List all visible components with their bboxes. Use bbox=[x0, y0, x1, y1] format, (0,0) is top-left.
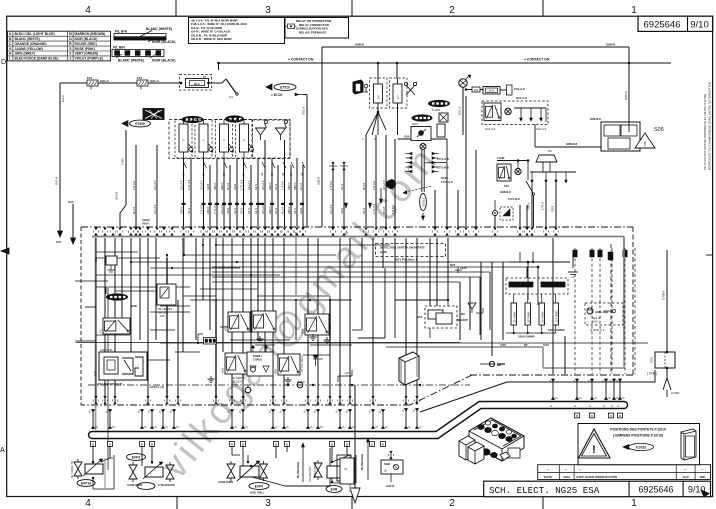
svg-text:CHAUD: CHAUD bbox=[253, 359, 262, 362]
grey unit outline right bbox=[623, 237, 625, 346]
solenoid Y2 bbox=[276, 128, 286, 135]
svg-text:D: D bbox=[1, 59, 6, 66]
wire column x=546 bbox=[545, 183, 547, 227]
svg-text:1771-A-8: 1771-A-8 bbox=[437, 157, 449, 161]
lamp H4 bbox=[515, 168, 521, 174]
svg-text:1000 OHMS: 1000 OHMS bbox=[518, 335, 535, 339]
stub x=142 bbox=[141, 409, 143, 429]
stub x=373 bbox=[372, 409, 374, 429]
wire column low x=216 bbox=[215, 238, 217, 403]
wire column low x=203 bbox=[202, 238, 204, 300]
svg-text:B06: B06 bbox=[56, 240, 62, 244]
switch blade S3 bbox=[526, 181, 533, 193]
manifold bottom cylinders bbox=[482, 448, 491, 455]
svg-text:2: 2 bbox=[449, 5, 455, 16]
wire h y=307 bbox=[85, 306, 96, 308]
arrow to P.10/10 bbox=[623, 445, 629, 450]
revision table bbox=[538, 465, 711, 480]
wire h y=281 bbox=[75, 280, 108, 282]
svg-text:G01-A-8: G01-A-8 bbox=[221, 204, 224, 214]
connector arrow bottom x60 bbox=[58, 231, 63, 237]
wire column low x=373 bbox=[372, 238, 374, 403]
svg-text:Q1: Q1 bbox=[229, 95, 233, 99]
wire column x=136 bbox=[135, 145, 137, 227]
svg-text:G88-N: G88-N bbox=[221, 182, 224, 190]
svg-text:G4-N: G4-N bbox=[341, 184, 344, 190]
svg-text:EVP4: EVP4 bbox=[255, 484, 264, 488]
K32 telescope unit bbox=[99, 352, 147, 380]
svg-text:EVP3: EVP3 bbox=[132, 455, 141, 459]
svg-text:G4-N: G4-N bbox=[363, 208, 366, 214]
svg-text:4: 4 bbox=[85, 5, 91, 16]
connector block small bbox=[204, 338, 217, 345]
motor M1 bbox=[459, 79, 467, 87]
manifold cube B bbox=[468, 442, 484, 464]
svg-text:1: 1 bbox=[631, 498, 637, 509]
svg-text:11AM: 11AM bbox=[497, 156, 505, 160]
svg-text:K28: K28 bbox=[160, 315, 165, 318]
terminal minus 2 bbox=[251, 367, 256, 372]
EVP4 cluster bbox=[249, 483, 269, 490]
svg-text:SCH. ELECT. NG25 ESA: SCH. ELECT. NG25 ESA bbox=[489, 485, 600, 496]
svg-text:380 OHMS: 380 OHMS bbox=[543, 311, 545, 323]
horn box S2 bbox=[411, 127, 431, 141]
svg-text:48,1-B: 48,1-B bbox=[383, 206, 386, 214]
svg-text:BLINDAGE: BLINDAGE bbox=[296, 462, 300, 478]
svg-text:+ CONTACT ON: + CONTACT ON bbox=[288, 58, 314, 62]
ground K21 bbox=[210, 376, 212, 379]
narrow box right of horn bbox=[437, 124, 445, 137]
wire column low x=223 bbox=[222, 238, 224, 352]
wire column x=386 bbox=[385, 135, 387, 227]
svg-text:3: 3 bbox=[265, 5, 271, 16]
wire column x=291 bbox=[290, 165, 292, 227]
zone tick top 2/1 bbox=[542, 0, 544, 16]
stub x=308 bbox=[307, 409, 309, 429]
stub x=243 bbox=[242, 409, 244, 429]
svg-text:G009: G009 bbox=[552, 205, 555, 212]
manifold solenoid coils bbox=[478, 425, 484, 430]
nested bus y=282 bbox=[212, 281, 460, 283]
svg-text:G009: G009 bbox=[207, 183, 210, 190]
svg-text:F7: F7 bbox=[396, 95, 400, 99]
svg-text:B: B bbox=[331, 442, 333, 446]
E10 wires bbox=[395, 299, 448, 301]
svg-text:!: ! bbox=[592, 444, 596, 456]
svg-text:CH5: CH5 bbox=[650, 357, 654, 363]
lamp H3 bbox=[420, 144, 426, 150]
svg-text:1771-B-8: 1771-B-8 bbox=[373, 203, 376, 214]
svg-text:P.10/10: P.10/10 bbox=[636, 445, 647, 449]
svg-text:G01-A-8: G01-A-8 bbox=[181, 180, 184, 190]
svg-text:175-B-8: 175-B-8 bbox=[330, 180, 333, 190]
dashed column x=600 bbox=[599, 248, 601, 374]
wire h y=262 bbox=[130, 261, 220, 263]
junction dots mesh bbox=[130, 261, 132, 263]
ESA boundary left bbox=[80, 227, 82, 405]
svg-text:0,5V: 0,5V bbox=[543, 343, 549, 347]
svg-text:G7084: G7084 bbox=[662, 291, 666, 300]
svg-text:1771-B-8: 1771-B-8 bbox=[437, 166, 449, 170]
svg-text:K11: K11 bbox=[301, 329, 305, 334]
svg-text:POSITIONS DES PONTETS P.10/10: POSITIONS DES PONTETS P.10/10 bbox=[610, 428, 666, 432]
svg-text:EVR: EVR bbox=[331, 487, 338, 491]
wire column x=466 bbox=[465, 96, 467, 227]
svg-text:G4-N: G4-N bbox=[275, 208, 278, 214]
svg-text:E10: E10 bbox=[417, 315, 423, 319]
extra mesh horizontals bbox=[96, 257, 160, 259]
diode box D4 bbox=[439, 113, 448, 122]
wire column low x=265 bbox=[264, 238, 266, 352]
svg-text:4A3: 4A3 bbox=[474, 89, 479, 92]
wire column x=395 bbox=[394, 139, 396, 227]
relay K6 trapezoid bbox=[536, 155, 557, 162]
arrow + label E7510 bbox=[266, 84, 272, 90]
wire column x=476 bbox=[475, 150, 477, 227]
svg-text:(LMI): (LMI) bbox=[380, 250, 387, 254]
svg-text:SDB: SDB bbox=[384, 462, 390, 466]
wire column low x=430 bbox=[429, 238, 431, 306]
wire column low x=383 bbox=[382, 238, 384, 268]
svg-text:G: G bbox=[617, 405, 619, 408]
svg-text:G4-N: G4-N bbox=[255, 208, 258, 214]
arrow + label E7509 bbox=[122, 121, 128, 127]
svg-text:NOIR (BLACK): NOIR (BLACK) bbox=[75, 37, 98, 41]
wire column x=333 bbox=[332, 162, 334, 227]
resistor bank dashed bbox=[506, 278, 568, 294]
svg-text:BE CRAWL BD: BE CRAWL BD bbox=[71, 461, 74, 478]
svg-text:B2B: B2B bbox=[131, 304, 137, 308]
svg-text:E7512: E7512 bbox=[422, 197, 426, 206]
wire column x=183.5 bbox=[183, 158, 185, 227]
stub x=417 bbox=[416, 408, 418, 429]
svg-text:G88-N: G88-N bbox=[606, 43, 615, 47]
svg-text:AUXILIAIRE: AUXILIAIRE bbox=[127, 483, 142, 487]
key switch bbox=[218, 63, 220, 70]
svg-text:380 OHMS: 380 OHMS bbox=[529, 311, 531, 323]
wire column x=258 bbox=[257, 158, 259, 227]
svg-text:G4-N: G4-N bbox=[275, 184, 278, 190]
svg-text:1000 OHMS: 1000 OHMS bbox=[548, 328, 565, 332]
svg-text:D8: D8 bbox=[319, 357, 323, 361]
wire column x=556 bbox=[555, 183, 557, 227]
svg-text:B: B bbox=[346, 442, 348, 446]
travel dashed arrow bbox=[405, 186, 432, 192]
wire column low x=448 bbox=[447, 238, 449, 300]
grey unit outline top bbox=[92, 236, 624, 238]
svg-text:G88-N: G88-N bbox=[288, 206, 291, 214]
pin bars on wires bbox=[182, 203, 186, 205]
wire column low x=553 bbox=[552, 238, 554, 374]
bus pin crossings left bbox=[95, 228, 98, 230]
key position text bbox=[376, 244, 446, 257]
svg-text:6925646: 6925646 bbox=[638, 484, 673, 494]
svg-text:G88-N: G88-N bbox=[317, 177, 321, 185]
svg-text:D2: D2 bbox=[461, 312, 465, 316]
wire column x=251 bbox=[250, 165, 252, 227]
relay K21 bbox=[225, 353, 247, 374]
wire h y=275 bbox=[96, 274, 280, 276]
wire column low x=232 bbox=[231, 238, 233, 403]
connector pictogram bbox=[288, 24, 295, 29]
svg-text:EVP14: EVP14 bbox=[81, 481, 91, 485]
wire column low x=460 bbox=[459, 282, 461, 340]
svg-text:ETAT AVANT MODIFICATION: ETAT AVANT MODIFICATION bbox=[577, 475, 618, 479]
stub right x=620 bbox=[619, 379, 621, 401]
svg-text:B: B bbox=[151, 442, 153, 446]
title block bbox=[484, 481, 711, 497]
wires from fan right bbox=[439, 162, 448, 164]
svg-text:G88-N: G88-N bbox=[624, 91, 628, 100]
svg-text:5-4382: 5-4382 bbox=[432, 108, 441, 112]
stub right x=592 bbox=[591, 379, 593, 401]
svg-text:G: G bbox=[9, 47, 12, 51]
+15 hook bbox=[337, 376, 339, 382]
down arrow x370 bbox=[369, 203, 372, 208]
svg-text:B: B bbox=[619, 414, 621, 418]
wire bus to fuses F6 F7 bbox=[377, 63, 379, 78]
svg-text:NOIR (BLACK): NOIR (BLACK) bbox=[152, 40, 176, 44]
svg-text:D27: D27 bbox=[450, 263, 456, 267]
svg-text:K32: K32 bbox=[93, 370, 97, 376]
relay K12 bbox=[228, 312, 250, 332]
svg-text:C1: C1 bbox=[99, 329, 103, 333]
svg-text:BLANC (WHITE): BLANC (WHITE) bbox=[118, 59, 144, 63]
wire column x=366 bbox=[365, 135, 367, 227]
svg-text:AVVA: AVVA bbox=[142, 222, 149, 226]
zone tick top 4/3 bbox=[175, 0, 177, 16]
svg-text:2: 2 bbox=[449, 498, 455, 509]
fuse F2 inline bbox=[137, 80, 148, 86]
svg-text:175-B-8: 175-B-8 bbox=[392, 204, 395, 214]
jumper hook bbox=[197, 334, 199, 343]
wire column low x=481 bbox=[480, 262, 482, 340]
svg-text:F: F bbox=[222, 139, 226, 141]
wire column x=284.5 bbox=[284, 140, 286, 227]
wire h y=320 bbox=[240, 319, 260, 321]
wire column low x=122 bbox=[121, 238, 123, 330]
wire column x=272 bbox=[271, 158, 273, 227]
label bbox=[137, 483, 155, 490]
stub right x=606 bbox=[605, 379, 607, 401]
svg-text:G88-N: G88-N bbox=[528, 202, 531, 210]
svg-text:12V: 12V bbox=[504, 184, 509, 188]
svg-text:175-B-8: 175-B-8 bbox=[282, 180, 285, 190]
svg-text:G009: G009 bbox=[300, 207, 303, 214]
fuse bank dashed box bbox=[169, 120, 290, 159]
svg-text:G4-N: G4-N bbox=[255, 184, 258, 190]
multi switch fan bbox=[421, 150, 423, 192]
stub right x=553 bbox=[552, 379, 554, 401]
svg-text:BLINDAGE: BLINDAGE bbox=[360, 454, 364, 470]
wire column low x=178 bbox=[177, 300, 179, 403]
svg-text:G88-N: G88-N bbox=[181, 206, 184, 214]
svg-text:K20: K20 bbox=[274, 368, 278, 374]
stub right x=614 bbox=[613, 379, 615, 401]
svg-text:(BL LEVT): (BL LEVT) bbox=[232, 381, 243, 384]
svg-text:3-TELESCOP: 3-TELESCOP bbox=[158, 483, 175, 487]
relay block S3 bbox=[497, 160, 528, 162]
coil component top-left interior bbox=[106, 256, 117, 265]
svg-text:W.A: W.A bbox=[489, 89, 494, 93]
svg-text:AUXILIAIRE: AUXILIAIRE bbox=[218, 480, 233, 484]
svg-text:B: B bbox=[382, 442, 384, 446]
border letter B arrow left bbox=[1, 248, 9, 254]
wire h y=300 bbox=[212, 299, 218, 301]
manifold cube A bbox=[459, 436, 475, 460]
svg-text:F: F bbox=[202, 139, 206, 141]
wire h y=300 bbox=[190, 299, 350, 301]
wire column x=447 bbox=[446, 185, 448, 227]
svg-text:+15: +15 bbox=[344, 371, 349, 375]
oval connector B2B bbox=[107, 294, 128, 300]
relay RM LEVI K28 bbox=[157, 284, 176, 305]
svg-text:G01-A: G01-A bbox=[100, 79, 110, 83]
svg-text:G: G bbox=[574, 405, 576, 408]
svg-text:B: B bbox=[610, 414, 612, 418]
svg-text:G01-A-8: G01-A-8 bbox=[262, 204, 265, 214]
svg-text:G4-N: G4-N bbox=[234, 208, 237, 214]
svg-text:48,1-B: 48,1-B bbox=[282, 206, 285, 214]
svg-text:B: B bbox=[591, 414, 593, 418]
wire column x=278 bbox=[277, 165, 279, 227]
svg-text:E7509: E7509 bbox=[135, 122, 145, 126]
svg-text:F7: F7 bbox=[203, 75, 207, 79]
wire column low x=210 bbox=[209, 238, 211, 330]
svg-text:1771-B-8: 1771-B-8 bbox=[188, 179, 191, 190]
ground K13 bbox=[312, 334, 314, 337]
warning triangle bbox=[579, 429, 611, 458]
svg-text:RELAIS FREINAGE: RELAIS FREINAGE bbox=[299, 30, 326, 34]
stub x=110 bbox=[109, 409, 111, 429]
wire column low x=340 bbox=[339, 238, 341, 403]
svg-text:G02-N: G02-N bbox=[386, 484, 394, 488]
dashed box D7 bbox=[500, 207, 513, 220]
svg-text:BLEU FONCE (DARK BLUE): BLEU FONCE (DARK BLUE) bbox=[15, 57, 59, 61]
svg-text:G88-N: G88-N bbox=[269, 182, 272, 190]
notes box relay connector bbox=[285, 18, 349, 39]
terminal minus bbox=[297, 382, 303, 388]
svg-text:G88-N-8: G88-N-8 bbox=[566, 142, 577, 146]
EVR cluster bbox=[326, 486, 342, 493]
svg-text:F15: F15 bbox=[137, 76, 143, 80]
jumper relay 3d icon bbox=[681, 429, 696, 460]
wire column x=237 bbox=[236, 158, 238, 227]
warning box jumpers bbox=[578, 424, 700, 465]
wire column x=157 bbox=[156, 145, 158, 227]
svg-text:VITES GRAND: VITES GRAND bbox=[314, 462, 317, 478]
svg-text:6V: 6V bbox=[524, 343, 528, 347]
wire column x=243.5 bbox=[243, 158, 245, 227]
CH6 wire down bbox=[666, 250, 668, 352]
svg-text:JAUNE (YELLOW): JAUNE (YELLOW) bbox=[15, 47, 43, 51]
svg-text:G88-N: G88-N bbox=[207, 206, 210, 214]
svg-text:K21: K21 bbox=[221, 367, 225, 373]
svg-text:G4-N: G4-N bbox=[188, 208, 191, 214]
svg-text:(JUMPERS POSITIONS P.10/10): (JUMPERS POSITIONS P.10/10) bbox=[613, 434, 663, 438]
fuse F5 bbox=[236, 120, 253, 159]
wire column x=203.5 bbox=[203, 158, 205, 227]
antenna G7084 bbox=[663, 378, 667, 390]
oval connector J3 bbox=[226, 116, 244, 122]
stub x=406 bbox=[405, 408, 407, 429]
svg-text:SURT./TEL.: SURT./TEL. bbox=[100, 348, 114, 352]
ground K20 bbox=[287, 377, 289, 380]
wire column x=527 bbox=[526, 205, 528, 227]
svg-text:G01-A-8: G01-A-8 bbox=[514, 87, 525, 91]
hydraulic manifold 3d bbox=[469, 418, 524, 461]
svg-text:REPRODUIT OU COMMUNIQUE SANS N: REPRODUIT OU COMMUNIQUE SANS NOTRE AUTOR… bbox=[708, 82, 712, 170]
svg-text:ROUGE (RED): ROUGE (RED) bbox=[75, 42, 97, 46]
svg-text:= W-CU: = W-CU bbox=[271, 93, 283, 97]
svg-text:4: 4 bbox=[85, 498, 91, 509]
svg-text:G88-N: G88-N bbox=[288, 182, 291, 190]
svg-text:W.A: W.A bbox=[194, 82, 200, 86]
wire column x=344 bbox=[343, 162, 345, 227]
svg-text:BLANC (WHITE): BLANC (WHITE) bbox=[146, 27, 172, 31]
wire column x=217 bbox=[216, 158, 218, 227]
wire x307 drop bbox=[306, 95, 308, 228]
svg-text:G01-A-8: G01-A-8 bbox=[154, 204, 157, 214]
wire column low x=196 bbox=[195, 238, 197, 340]
oval connector D4 bbox=[429, 100, 450, 106]
3d connector cube bbox=[399, 352, 419, 385]
svg-text:B: B bbox=[92, 442, 94, 446]
relay C1 bbox=[103, 318, 130, 334]
stub x=174 bbox=[173, 409, 175, 429]
wire column low x=470 bbox=[469, 277, 471, 330]
svg-text:G: G bbox=[603, 405, 605, 408]
svg-text:G88-N: G88-N bbox=[355, 43, 364, 47]
stub x=340 bbox=[339, 409, 341, 429]
EVP4 wire right bbox=[252, 477, 285, 486]
wire column low x=167 bbox=[166, 258, 168, 403]
wire column x=520 bbox=[519, 205, 521, 227]
svg-text:GRIS (GREY): GRIS (GREY) bbox=[15, 52, 36, 56]
ESA boundary bottom right bbox=[470, 374, 633, 376]
wire column low x=565 bbox=[564, 336, 566, 374]
wire column x=303 bbox=[302, 165, 304, 227]
svg-text:1771-B: 1771-B bbox=[542, 202, 545, 210]
wire jog column x126 bbox=[120, 130, 126, 227]
svg-text:4,5V: 4,5V bbox=[500, 343, 506, 347]
big bottom arrow bbox=[354, 385, 356, 488]
svg-text:B: B bbox=[231, 442, 233, 446]
wire column x=532 bbox=[531, 195, 533, 227]
node contact-on junction bbox=[217, 62, 220, 65]
svg-text:CE PLAN EST NOTRE PROPRIETE ET: CE PLAN EST NOTRE PROPRIETE ET NE PEUT E… bbox=[703, 94, 707, 170]
svg-text:175-B-8: 175-B-8 bbox=[133, 180, 136, 190]
solenoid coil bbox=[145, 467, 163, 477]
wire column low x=308 bbox=[307, 238, 309, 403]
svg-text:ALR: ALR bbox=[683, 475, 690, 479]
wire column low x=527 bbox=[526, 267, 528, 278]
wire fuse feed bbox=[60, 82, 181, 84]
mid axis dash-dot bbox=[88, 384, 470, 386]
lamp H2 bbox=[505, 108, 511, 114]
wire G88-N corner drop bbox=[321, 47, 323, 227]
svg-text:G4-N: G4-N bbox=[241, 208, 244, 214]
right top horizontals bbox=[510, 261, 570, 263]
solenoid Y1 bbox=[256, 128, 266, 135]
horn component bbox=[386, 179, 396, 189]
svg-text:G: G bbox=[589, 405, 591, 408]
oval connector J5 bbox=[412, 115, 432, 121]
ground K11 bbox=[326, 337, 328, 340]
wire column low x=105 bbox=[104, 238, 106, 403]
svg-text:FIL B-N: FIL B-N bbox=[115, 30, 128, 34]
wire column low x=183 bbox=[182, 238, 184, 352]
